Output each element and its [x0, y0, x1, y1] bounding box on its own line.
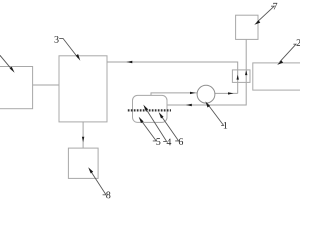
flow arrow right on pump outlet: [228, 92, 234, 94]
box 3 (main reactor): [59, 56, 107, 122]
tank (rounded vessel 4/5/6): [133, 95, 168, 122]
flow arrow right on pump inlet: [190, 92, 196, 94]
label 3 with leader: [54, 36, 58, 43]
wire: pump outlet to riser: [215, 92, 238, 94]
box 8 (discharge unit): [68, 148, 98, 178]
flow arrow up in manifold (right riser): [245, 70, 247, 75]
pump 1 (circle): [197, 85, 215, 103]
wire: tank top nub to pump inlet: [151, 93, 197, 96]
label 6 with leader: [179, 138, 183, 145]
label 8 with leader: [106, 192, 110, 199]
flow arrow up in manifold (left riser): [237, 75, 239, 80]
wire: box 3 down to box 8: [82, 122, 84, 148]
label 1 with leader: [224, 122, 228, 129]
label 7 with leader: [273, 3, 277, 10]
left box (feed unit, label off-frame): [0, 67, 33, 109]
leader arrow into left box (label outside frame): [0, 52, 13, 71]
wire: left box to box 3: [33, 84, 59, 86]
box 2 (right vessel, cut at frame edge): [253, 63, 303, 90]
flow arrow left on return line: [186, 104, 192, 107]
wire: top pipe from box 3 right to riser corner: [107, 62, 238, 93]
label 2 with leader: [297, 39, 301, 46]
strip: perforated plate inside tank: [128, 109, 171, 111]
wire: return line from box 7 down through manifold to tank: [167, 39, 246, 105]
flow arrow down on box3-box8 wire: [82, 137, 84, 143]
label 5 with leader: [156, 138, 160, 145]
label 4 with leader: [167, 139, 172, 146]
manifold block (junction box): [232, 70, 250, 83]
flow arrow left on top pipe: [126, 61, 132, 64]
box 7 (top tank): [236, 15, 258, 39]
